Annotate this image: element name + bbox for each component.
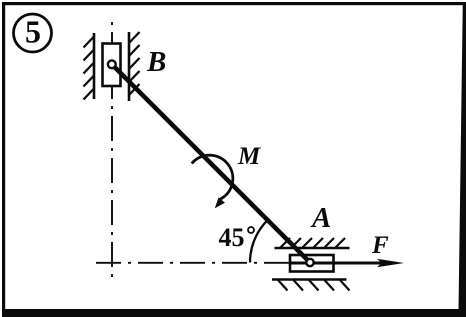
ground hatching above A: [281, 238, 346, 248]
wall right line: [128, 32, 131, 101]
wall left hatching: [84, 37, 95, 100]
svg-text:B: B: [146, 46, 166, 78]
degree symbol: [248, 227, 254, 233]
vertical dash-dot centerline: [111, 20, 113, 281]
wall left line: [93, 33, 96, 99]
horizontal dash-dot centerline: [96, 262, 290, 264]
force F arrow shaft: [291, 262, 384, 265]
slider B: [103, 44, 121, 87]
force F arrowhead: [377, 259, 404, 267]
problem number circle: [14, 14, 52, 52]
svg-text:5: 5: [25, 14, 41, 50]
frame border bottom: [2, 309, 466, 317]
ground hatching below A: [278, 280, 350, 291]
pin A: [306, 259, 313, 266]
slider A: [290, 255, 334, 272]
svg-text:M: M: [237, 143, 261, 170]
frame border right: [459, 2, 466, 317]
ground line above slider A: [275, 247, 350, 250]
moment arrowhead: [215, 197, 225, 208]
moment arc M: [192, 155, 233, 199]
svg-text:F: F: [371, 232, 389, 259]
frame border left: [2, 2, 5, 315]
frame border top: [2, 2, 464, 5]
ground line below slider A: [272, 278, 347, 281]
pin B: [108, 60, 116, 68]
45 degree arc: [250, 220, 268, 262]
rod AB: [112, 64, 310, 262]
wall right hatching: [129, 32, 140, 95]
svg-text:45: 45: [219, 223, 245, 252]
svg-text:A: A: [310, 202, 331, 234]
